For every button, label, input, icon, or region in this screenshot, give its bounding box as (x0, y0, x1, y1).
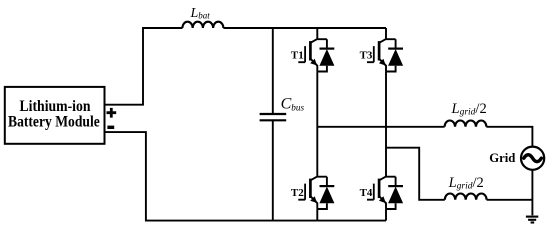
svg-text:T3: T3 (360, 49, 373, 61)
svg-text:T1: T1 (291, 49, 304, 61)
svg-text:T4: T4 (360, 187, 373, 199)
svg-text:Grid: Grid (489, 150, 516, 165)
svg-text:Cbus: Cbus (281, 96, 305, 113)
svg-text:Lgrid/2: Lgrid/2 (451, 101, 487, 118)
svg-text:T2: T2 (291, 187, 304, 199)
svg-text:Battery Module: Battery Module (8, 113, 100, 130)
svg-text:Lgrid/2: Lgrid/2 (448, 175, 484, 192)
svg-text:Lbat: Lbat (190, 6, 211, 21)
